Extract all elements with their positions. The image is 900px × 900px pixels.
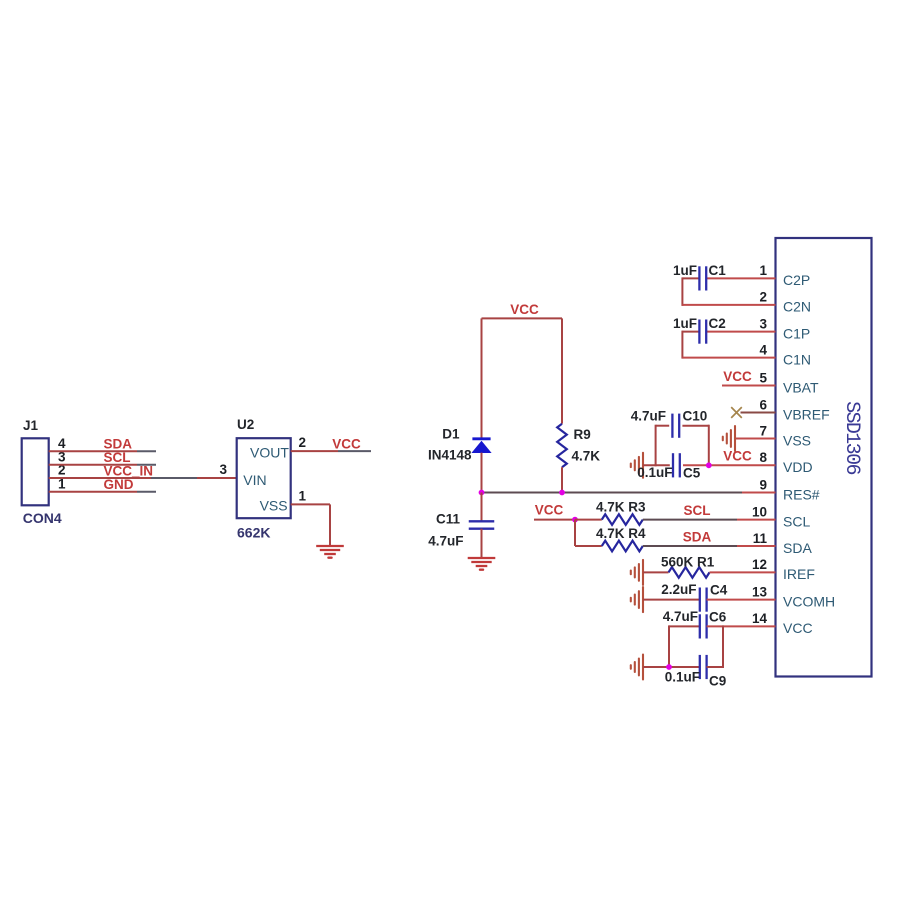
ground C5 <box>642 453 644 478</box>
ground C4 <box>642 587 644 612</box>
junction C9 <box>666 664 672 670</box>
svg-text:13: 13 <box>752 584 768 599</box>
wire C10 branch right vertical <box>708 425 710 466</box>
svg-text:RES#: RES# <box>783 486 820 502</box>
capacitor C9 <box>699 655 701 679</box>
wire RES# long <box>482 492 743 494</box>
svg-text:0.1uF: 0.1uF <box>665 669 700 684</box>
wire pin3 stub <box>707 331 776 333</box>
svg-text:SSD1306: SSD1306 <box>840 401 863 474</box>
wire C9 right <box>707 666 723 668</box>
wire D1 branch lower <box>481 453 483 493</box>
svg-text:D1: D1 <box>442 426 460 441</box>
svg-text:1: 1 <box>759 263 767 278</box>
svg-text:C11: C11 <box>436 512 461 527</box>
wire U2 VSS <box>291 503 330 505</box>
wire pin2 <box>682 304 775 306</box>
svg-text:VCC: VCC <box>723 369 752 384</box>
junction pin8 <box>706 462 712 468</box>
wire pin10 <box>643 519 737 521</box>
svg-text:VOUT: VOUT <box>250 445 289 461</box>
svg-text:VIN: VIN <box>243 472 266 488</box>
svg-text:4.7K R3: 4.7K R3 <box>596 500 646 515</box>
wire C10 branch top-right <box>682 425 708 427</box>
svg-text:4.7uF: 4.7uF <box>631 408 666 423</box>
svg-text:1: 1 <box>299 488 307 503</box>
wire VCC down to R4 <box>574 520 576 546</box>
ground R1 <box>642 560 644 585</box>
svg-text:VSS: VSS <box>260 498 288 514</box>
svg-text:3: 3 <box>219 462 227 477</box>
wire J1 pin1 <box>49 491 137 493</box>
svg-text:6: 6 <box>759 397 767 412</box>
svg-text:2: 2 <box>299 435 307 450</box>
ground U2 <box>316 545 344 547</box>
svg-text:VSS: VSS <box>783 432 811 448</box>
svg-text:10: 10 <box>752 504 767 519</box>
capacitor C2 <box>698 320 700 344</box>
svg-text:SCL: SCL <box>783 513 810 529</box>
wire VCC_IN to U2 <box>49 477 151 479</box>
wire C1 vertical <box>681 277 683 306</box>
svg-text:12: 12 <box>752 557 767 572</box>
capacitor C10 <box>671 414 673 438</box>
svg-text:3: 3 <box>759 316 767 331</box>
wire R9 branch lower <box>561 467 563 492</box>
wire U2 VSS vertical <box>329 504 331 546</box>
svg-text:7: 7 <box>759 423 767 438</box>
capacitor C1 <box>698 266 700 290</box>
svg-text:C2: C2 <box>709 316 726 331</box>
wire pin13 <box>707 599 776 601</box>
svg-text:14: 14 <box>752 611 768 626</box>
IC U1 SSD1306 <box>776 238 872 677</box>
svg-text:5: 5 <box>759 370 767 385</box>
svg-text:4.7K: 4.7K <box>572 448 601 463</box>
ground C11 <box>468 557 496 559</box>
svg-text:662K: 662K <box>237 525 270 541</box>
svg-text:2.2uF: 2.2uF <box>661 582 696 597</box>
svg-text:C1: C1 <box>709 263 727 278</box>
junction VCC R3R4 <box>572 517 578 523</box>
svg-text:VCC: VCC <box>723 449 752 464</box>
svg-text:C10: C10 <box>683 408 708 423</box>
svg-text:VCOMH: VCOMH <box>783 593 835 609</box>
svg-text:VCC: VCC <box>535 503 564 518</box>
svg-text:VBREF: VBREF <box>783 406 830 422</box>
svg-text:VCC: VCC <box>510 302 539 317</box>
svg-text:C4: C4 <box>710 582 728 597</box>
svg-text:1uF: 1uF <box>673 316 697 331</box>
svg-text:2: 2 <box>759 290 767 305</box>
wire pin4 <box>682 357 775 359</box>
wire J1 pin4 <box>49 450 137 452</box>
ground pin7 <box>734 426 736 451</box>
svg-text:1uF: 1uF <box>673 263 697 278</box>
wire pin1 stub <box>707 277 776 279</box>
svg-text:0.1uF: 0.1uF <box>637 465 672 480</box>
svg-text:SDA: SDA <box>683 530 712 545</box>
svg-text:4.7uF: 4.7uF <box>663 609 698 624</box>
svg-text:11: 11 <box>753 531 768 546</box>
svg-text:C9: C9 <box>709 673 726 688</box>
wire C6 left vertical <box>668 625 670 667</box>
wire pin5 VBAT <box>722 385 776 387</box>
svg-text:C1P: C1P <box>783 325 810 341</box>
wire C2 left <box>682 331 699 333</box>
svg-text:IREF: IREF <box>783 566 815 582</box>
wire R4 left <box>575 545 602 547</box>
wire pin8 left <box>643 464 670 466</box>
wire VCC stub <box>534 519 575 521</box>
svg-text:C6: C6 <box>709 609 727 624</box>
junction D1 node <box>479 490 485 496</box>
svg-text:4.7uF: 4.7uF <box>428 533 463 548</box>
wire pin6 VBREF <box>741 412 776 414</box>
diode D1 <box>472 437 490 440</box>
svg-text:IN4148: IN4148 <box>428 447 472 462</box>
svg-text:4.7K R4: 4.7K R4 <box>596 526 646 541</box>
wire D1 branch upper <box>481 318 483 438</box>
svg-text:VCC: VCC <box>332 437 361 452</box>
svg-text:C2P: C2P <box>783 272 810 288</box>
wire C4 left <box>643 599 700 601</box>
no-connect X pin6 <box>731 407 742 418</box>
svg-text:U2: U2 <box>237 417 254 432</box>
svg-text:VDD: VDD <box>783 459 813 475</box>
svg-text:R9: R9 <box>574 427 591 442</box>
wire C10 branch top-left <box>656 425 670 427</box>
svg-text:C2N: C2N <box>783 299 811 315</box>
resistor R9 <box>557 424 567 468</box>
wire C10 branch left vertical <box>655 425 657 467</box>
capacitor C6 <box>699 614 701 638</box>
wire VCC top <box>482 317 563 319</box>
svg-text:CON4: CON4 <box>23 510 62 526</box>
wire pin14 right <box>707 625 776 627</box>
svg-text:VBAT: VBAT <box>783 379 819 395</box>
svg-text:GND: GND <box>104 477 134 492</box>
wire C1 left <box>682 277 699 279</box>
wire C9 left <box>643 666 700 668</box>
wire J1 pin3 <box>49 464 137 466</box>
wire C2 vertical <box>681 331 683 359</box>
wire U2 VOUT <box>291 450 338 452</box>
wire C6 right vertical <box>722 625 724 668</box>
resistor R1 <box>669 567 710 578</box>
svg-text:9: 9 <box>759 477 767 492</box>
wire C11 upper <box>481 493 483 522</box>
junction R9 node <box>559 490 565 496</box>
ground C9 <box>642 655 644 680</box>
wire pin7 VSS <box>735 438 776 440</box>
svg-text:VCC: VCC <box>783 620 813 636</box>
resistor R4 <box>602 541 643 552</box>
svg-text:C1N: C1N <box>783 351 811 367</box>
wire R9 branch upper <box>561 318 563 423</box>
wire R3 left <box>575 519 602 521</box>
capacitor C5 <box>672 453 674 477</box>
resistor R3 <box>602 514 643 525</box>
capacitor C11 <box>469 520 495 522</box>
svg-text:4: 4 <box>759 342 767 357</box>
svg-text:SDA: SDA <box>783 540 812 556</box>
wire pin11 <box>643 545 737 547</box>
svg-text:C5: C5 <box>683 466 701 481</box>
wire C11 lower <box>481 529 483 558</box>
svg-text:8: 8 <box>759 450 767 465</box>
wire pin14 left <box>669 625 700 627</box>
wire R1 left <box>643 571 669 573</box>
capacitor C4 <box>699 588 701 612</box>
svg-text:J1: J1 <box>23 418 39 433</box>
svg-text:SCL: SCL <box>684 503 711 518</box>
wire pin8 right <box>683 464 776 466</box>
svg-text:560K R1: 560K R1 <box>661 554 715 569</box>
wire pin12 <box>710 571 776 573</box>
